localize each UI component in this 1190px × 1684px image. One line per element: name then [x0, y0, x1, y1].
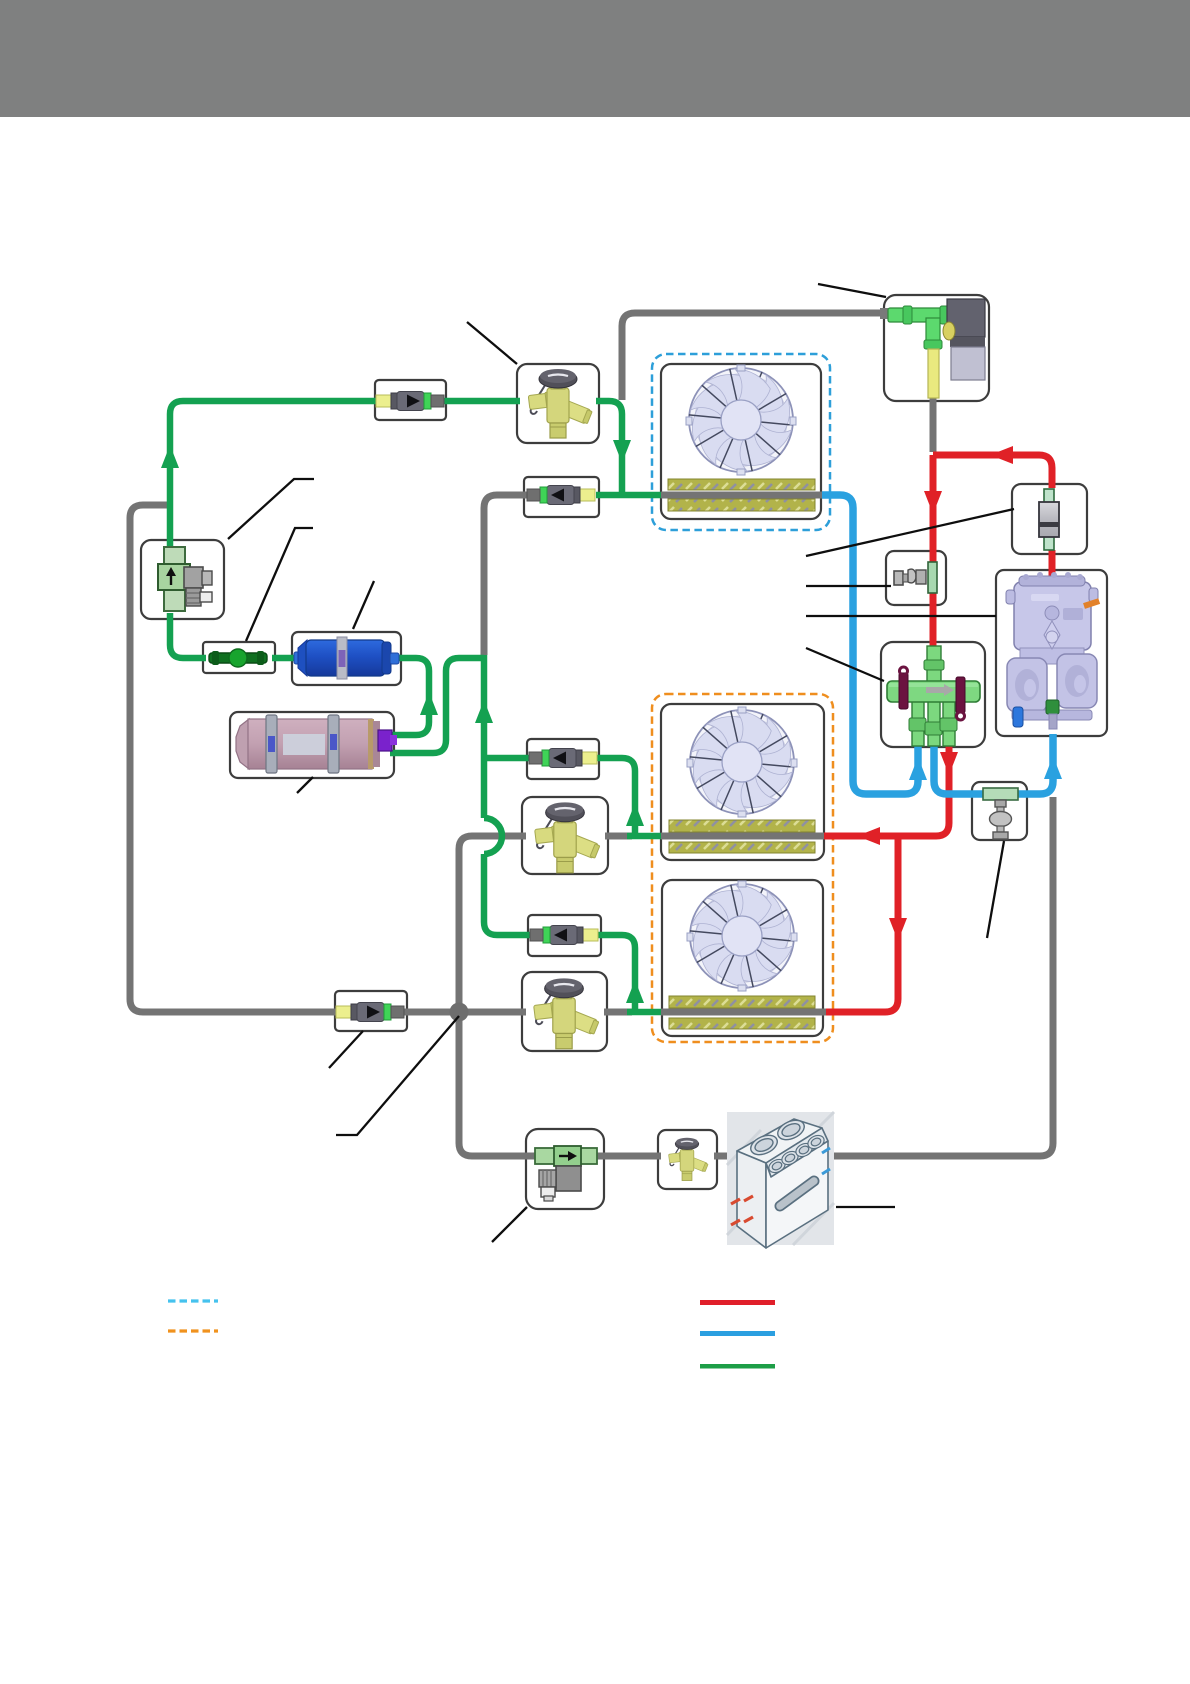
wire: red muffler to compressor	[1049, 550, 1056, 576]
legend: suction line blue	[700, 1331, 775, 1336]
expansion valve TXV4 box	[658, 1130, 717, 1189]
wire: green CV3 right, drop to middle coil row	[596, 758, 635, 833]
fan2 lower coil strip	[669, 842, 815, 853]
legend: defrost circuit 1 dashed cyan	[168, 1299, 218, 1302]
flow arrow left red discharge	[990, 446, 1013, 464]
wire: bottom coil line	[661, 1009, 826, 1016]
muffler/filter box	[1012, 484, 1087, 554]
pressure regulator box	[972, 782, 1027, 840]
wire: green sight glass to filter drier	[272, 655, 295, 662]
flow arrow left red into middle coil	[857, 827, 880, 845]
wire: middle coil line	[661, 833, 824, 840]
wire: green riser lower part to CV5 row	[484, 854, 531, 935]
flow arrow up blue to compressor	[1044, 756, 1062, 779]
check valve CV4 box	[335, 991, 407, 1031]
fan 1	[679, 356, 804, 483]
expansion valve TXV3 box	[522, 972, 607, 1051]
receiver tank box	[230, 712, 394, 778]
shut-off valve box	[886, 551, 946, 605]
wire: gray TXV2 left down to junction dot	[459, 836, 526, 1012]
compressor U1 box	[996, 570, 1107, 736]
flow arrow down red to manifold	[924, 491, 942, 514]
wire: blue manifold middle tube to compressor suction	[934, 734, 1053, 794]
flow arrow up green from bottom coil	[626, 980, 644, 1003]
flow arrow up green receiver feed	[420, 692, 438, 715]
sight glass box	[203, 642, 275, 673]
expansion valve TXV3	[534, 978, 600, 1048]
wire: green service valve to sight glass	[170, 613, 206, 658]
check valve CV5 box	[528, 915, 601, 956]
fan1 upper coil strip	[668, 479, 815, 490]
check valve CV1 (forward)	[376, 392, 444, 411]
service valve graphic	[158, 547, 212, 611]
fan unit 2 (evaporator) box	[661, 704, 824, 860]
flow arrow down green into condenser	[613, 440, 631, 463]
shut-off valve graphic	[894, 562, 937, 593]
muffler/filter graphic	[1039, 489, 1059, 550]
service valve SV box	[141, 540, 224, 619]
expansion valve TXV2	[535, 802, 601, 872]
wire: green filter drier to receiver upper port	[392, 658, 429, 735]
flow arrow up blue to manifold	[909, 757, 927, 780]
wire: far-left gray suction loop	[130, 505, 338, 1012]
wire: gray below junction dot to heating valve	[459, 1016, 537, 1156]
check valve CV5 (reverse)	[530, 926, 598, 945]
flow arrow up green riser	[475, 700, 493, 723]
wire: green join segment bottom coil	[627, 1009, 661, 1016]
check valve CV3 box	[527, 739, 599, 779]
expansion valve TXV1	[528, 369, 592, 438]
wire: gray from TXV3 right to coil join	[604, 1009, 632, 1016]
heating solenoid valve graphic	[535, 1146, 597, 1201]
wire: green TXV1 right, drop to condenser row	[596, 401, 622, 492]
expansion valve TXV1 box	[517, 364, 599, 443]
legend: defrost circuit 2 dashed orange	[168, 1329, 218, 1332]
evaporator dashed enclosure (orange)	[652, 694, 833, 1042]
filter drier graphic	[294, 637, 399, 679]
heating solenoid valve box	[526, 1129, 604, 1209]
leader lines	[228, 284, 1014, 1242]
sight glass graphic	[209, 649, 267, 667]
flow arrow up green from middle coil	[626, 803, 644, 826]
receiver tank graphic	[236, 715, 397, 773]
wire: red branch down to bottom coil	[826, 836, 898, 1012]
wire: green riser hop over gray	[484, 818, 502, 854]
check valve CV2 box	[524, 477, 599, 517]
wire: red discharge horizontal to muffler	[933, 455, 1052, 488]
wire: blue condenser row to manifold left tube	[822, 495, 918, 794]
wire: red manifold right tube down and left to middle coil	[824, 746, 949, 836]
legend: liquid line green	[700, 1364, 775, 1369]
fan unit 3 (evaporator) box	[662, 880, 823, 1036]
wire: gray TXV2 right to coil join	[605, 833, 632, 840]
node: junction dot	[450, 1003, 469, 1022]
check valve CV3 (reverse)	[529, 749, 597, 768]
evaporator unit (roof unit picture)	[727, 1112, 834, 1248]
wire: top coil line	[661, 492, 822, 499]
wire: green join segment middle coil	[627, 833, 661, 840]
wire: green condenser row segment (CV2 stub to coil)	[596, 492, 661, 499]
wire: green liquid line service valve up to CV1	[170, 401, 378, 546]
fan3 upper coil strip	[669, 996, 815, 1008]
fan 2	[680, 698, 805, 825]
suction manifold box	[881, 642, 985, 747]
wire: gray stub below solenoid assembly	[930, 398, 937, 452]
fan3 lower coil strip	[669, 1018, 815, 1029]
legend: discharge line red	[700, 1300, 775, 1305]
wire: gray CV2 left curve down to liquid junction	[484, 495, 527, 655]
wire: green branch riser to CV3	[484, 755, 530, 762]
wire: green CV5 right, drop to bottom coil row	[598, 935, 635, 1009]
wire: gray heating valve to TXV4	[595, 1153, 661, 1160]
wire: gray segment CV4 to junction and TXV3	[404, 1009, 526, 1016]
wire: gray TXV4 to evaporator	[714, 1153, 729, 1160]
flow arrow up green liquid to CV1	[161, 445, 179, 468]
wire: gray evaporator right up to suction tee	[834, 797, 1053, 1156]
expansion valve TXV4	[668, 1138, 708, 1181]
check valve CV4 (forward)	[336, 1003, 404, 1022]
check valve CV1 box	[375, 380, 446, 420]
filter drier box	[292, 632, 401, 685]
suction manifold graphic	[887, 646, 980, 746]
fan1 lower coil strip	[668, 499, 815, 511]
wire: gray from solenoid assembly to condenser drop	[622, 313, 887, 400]
header bar	[0, 0, 1190, 117]
fan2 upper coil strip	[669, 820, 815, 832]
compressor graphic	[1006, 572, 1100, 729]
flow arrow down red branch	[889, 918, 907, 941]
wire: green receiver lower port to liquid junction	[390, 658, 484, 753]
expansion valve TXV2 box	[522, 797, 608, 874]
wire: green liquid riser upper part	[481, 655, 488, 818]
fan 3	[680, 872, 805, 999]
wire: red discharge vertical to manifold	[930, 455, 937, 646]
solenoid valve assembly graphic	[880, 299, 985, 398]
wire: green CV1 to TXV1	[443, 398, 520, 405]
solenoid valve assembly box	[884, 295, 989, 401]
fan unit 1 (condenser) box	[661, 364, 821, 519]
condenser dashed enclosure (blue)	[652, 354, 830, 530]
check valve CV2 (reverse)	[527, 486, 595, 505]
flow arrow down red from manifold	[940, 752, 958, 775]
pressure regulator graphic	[983, 788, 1018, 839]
